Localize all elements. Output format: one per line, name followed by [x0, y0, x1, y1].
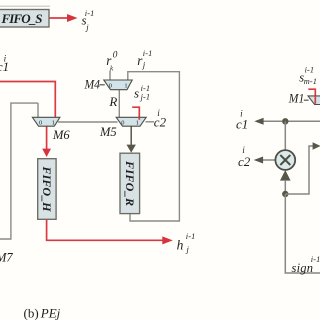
svg-text:i: i — [242, 145, 245, 155]
svg-text:1: 1 — [124, 83, 127, 90]
svg-text:i-1: i-1 — [311, 255, 320, 264]
svg-text:FIFO_S: FIFO_S — [1, 11, 43, 26]
svg-text:j: j — [85, 22, 89, 32]
svg-text:c2: c2 — [154, 114, 167, 129]
svg-text:i-1: i-1 — [305, 66, 315, 75]
svg-text:i: i — [240, 108, 243, 118]
svg-text:(b): (b) — [24, 306, 39, 320]
svg-text:sign: sign — [292, 261, 314, 275]
svg-text:m-1: m-1 — [304, 77, 317, 86]
svg-text:M5: M5 — [99, 125, 117, 139]
svg-text:i-1: i-1 — [85, 9, 95, 18]
svg-text:M6: M6 — [52, 128, 70, 142]
svg-text:j-1: j-1 — [140, 92, 151, 101]
svg-text:c1: c1 — [236, 117, 248, 132]
svg-text:j: j — [186, 244, 190, 254]
svg-text:i: i — [4, 54, 7, 64]
svg-text:1: 1 — [136, 119, 139, 126]
svg-text:FIFO_R: FIFO_R — [123, 160, 137, 206]
svg-text:M7: M7 — [0, 250, 13, 264]
svg-text:0: 0 — [121, 119, 124, 126]
svg-text:k: k — [110, 65, 114, 73]
svg-text:c2: c2 — [238, 154, 251, 169]
svg-text:0: 0 — [113, 50, 118, 60]
svg-text:1: 1 — [52, 119, 55, 126]
svg-text:M1: M1 — [288, 91, 304, 105]
svg-text:0: 0 — [109, 83, 112, 90]
svg-text:FIFO_H: FIFO_H — [40, 166, 54, 213]
svg-text:i-1: i-1 — [186, 232, 196, 241]
svg-text:i: i — [157, 108, 160, 118]
svg-text:0: 0 — [39, 119, 42, 126]
svg-text:h: h — [177, 238, 184, 253]
svg-text:j: j — [142, 60, 146, 70]
svg-text:s: s — [134, 86, 139, 101]
svg-text:i-1: i-1 — [143, 49, 153, 58]
svg-text:PEj: PEj — [40, 306, 61, 320]
svg-text:M4: M4 — [84, 78, 100, 92]
svg-text:R: R — [108, 94, 117, 109]
